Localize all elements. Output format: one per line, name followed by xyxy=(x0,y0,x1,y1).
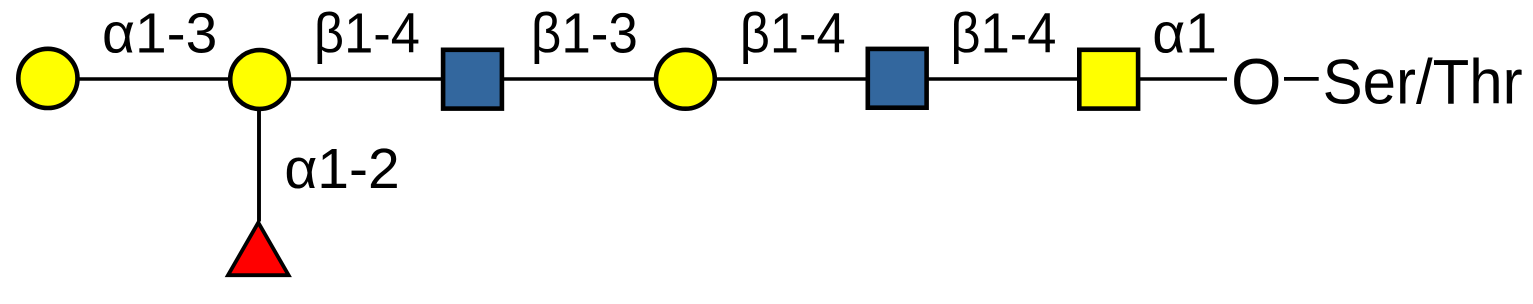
wire O-Ser dash xyxy=(1284,77,1319,81)
fucose red triangle xyxy=(228,223,289,276)
svg-text:β1-4: β1-4 xyxy=(314,1,420,65)
GlcNAc square 2 xyxy=(868,49,927,108)
svg-text:α1-2: α1-2 xyxy=(284,137,399,201)
svg-text:β1-4: β1-4 xyxy=(740,1,846,65)
wire GalNAc-O xyxy=(1109,77,1227,81)
wire Gal2-GlcNAc1 xyxy=(260,77,473,81)
wire Fuc branch vertical xyxy=(257,79,261,222)
svg-text:β1-3: β1-3 xyxy=(531,1,638,65)
svg-text:Ser/Thr: Ser/Thr xyxy=(1323,48,1523,118)
svg-text:O: O xyxy=(1231,45,1282,118)
wire GlcNAc1-Gal3 xyxy=(473,77,686,81)
galactose circle 3 xyxy=(656,50,715,109)
galactose circle 1 xyxy=(18,49,77,108)
svg-text:α1-3: α1-3 xyxy=(102,1,217,65)
svg-text:α1: α1 xyxy=(1152,1,1217,65)
svg-text:β1-4: β1-4 xyxy=(950,1,1056,65)
wire GlcNAc2-GalNAc xyxy=(897,77,1108,81)
galactose circle 2 xyxy=(230,50,289,109)
GlcNAc square 1 xyxy=(443,50,502,109)
GalNAc yellow square xyxy=(1079,50,1138,109)
wire Gal3-GlcNAc2 xyxy=(685,77,897,81)
wire backbone Gal1-Gal2 xyxy=(48,77,260,81)
